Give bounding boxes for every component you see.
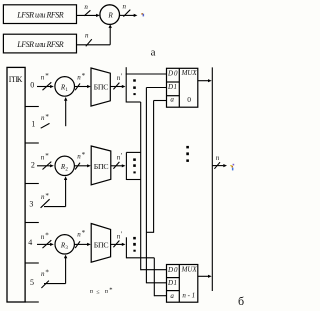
svg-text:D1: D1 bbox=[167, 279, 177, 287]
svg-text:БПС: БПС bbox=[94, 83, 109, 92]
svg-text:LFSR или RFSR: LFSR или RFSR bbox=[16, 10, 63, 19]
svg-text:2: 2 bbox=[31, 161, 35, 170]
svg-text:n: n bbox=[41, 114, 45, 122]
svg-text:D1: D1 bbox=[167, 83, 177, 91]
svg-text:ГПК: ГПК bbox=[9, 75, 23, 84]
svg-text:n: n bbox=[216, 154, 220, 162]
svg-text:a: a bbox=[170, 292, 174, 300]
svg-text:3: 3 bbox=[29, 200, 33, 209]
svg-text:a: a bbox=[170, 95, 174, 103]
svg-text:5: 5 bbox=[30, 278, 34, 287]
svg-text:*: * bbox=[45, 231, 49, 239]
svg-text:*: * bbox=[45, 192, 49, 200]
svg-text:': ' bbox=[121, 231, 122, 239]
svg-text:n: n bbox=[84, 3, 88, 11]
svg-text:*: * bbox=[45, 152, 49, 160]
svg-text:*: * bbox=[45, 113, 49, 121]
svg-text:БПС: БПС bbox=[94, 162, 109, 171]
svg-text:а: а bbox=[151, 47, 156, 59]
svg-text:*: * bbox=[45, 268, 49, 276]
svg-text:n: n bbox=[85, 31, 89, 39]
svg-text:n: n bbox=[123, 3, 127, 11]
svg-text:*: * bbox=[82, 229, 86, 237]
svg-text:n: n bbox=[77, 74, 81, 82]
svg-text:n: n bbox=[105, 288, 108, 295]
svg-text:n: n bbox=[41, 233, 45, 241]
svg-text:БПС: БПС bbox=[94, 240, 109, 249]
svg-text:0: 0 bbox=[30, 80, 34, 89]
svg-text:*: * bbox=[45, 72, 49, 80]
svg-text:n: n bbox=[77, 231, 81, 239]
svg-text:2: 2 bbox=[65, 168, 68, 173]
svg-text:3: 3 bbox=[65, 246, 68, 251]
svg-text:0: 0 bbox=[187, 95, 191, 104]
svg-text:n: n bbox=[41, 193, 45, 201]
svg-text:*: * bbox=[82, 72, 86, 80]
svg-text:MUX: MUX bbox=[181, 265, 198, 273]
svg-text:MUX: MUX bbox=[181, 69, 198, 77]
svg-text:n: n bbox=[41, 153, 45, 161]
svg-text:n: n bbox=[41, 73, 45, 81]
svg-text:*: * bbox=[109, 287, 112, 294]
svg-text:4: 4 bbox=[28, 238, 32, 247]
svg-text:n: n bbox=[41, 270, 45, 278]
svg-text:LFSR или RFSR: LFSR или RFSR bbox=[16, 40, 63, 49]
svg-text:1: 1 bbox=[31, 120, 35, 129]
svg-text:n: n bbox=[77, 152, 81, 160]
svg-text:б: б bbox=[238, 294, 244, 308]
svg-text:n: n bbox=[90, 288, 93, 295]
svg-text:n - 1: n - 1 bbox=[182, 292, 195, 300]
svg-text:D0: D0 bbox=[167, 266, 178, 274]
svg-text:': ' bbox=[121, 73, 122, 81]
svg-text:D0: D0 bbox=[167, 70, 178, 78]
svg-text:': ' bbox=[121, 152, 122, 160]
svg-text:1: 1 bbox=[65, 88, 68, 93]
svg-text:≤: ≤ bbox=[96, 289, 100, 295]
svg-text:*: * bbox=[82, 151, 86, 159]
svg-text:R: R bbox=[107, 12, 113, 20]
